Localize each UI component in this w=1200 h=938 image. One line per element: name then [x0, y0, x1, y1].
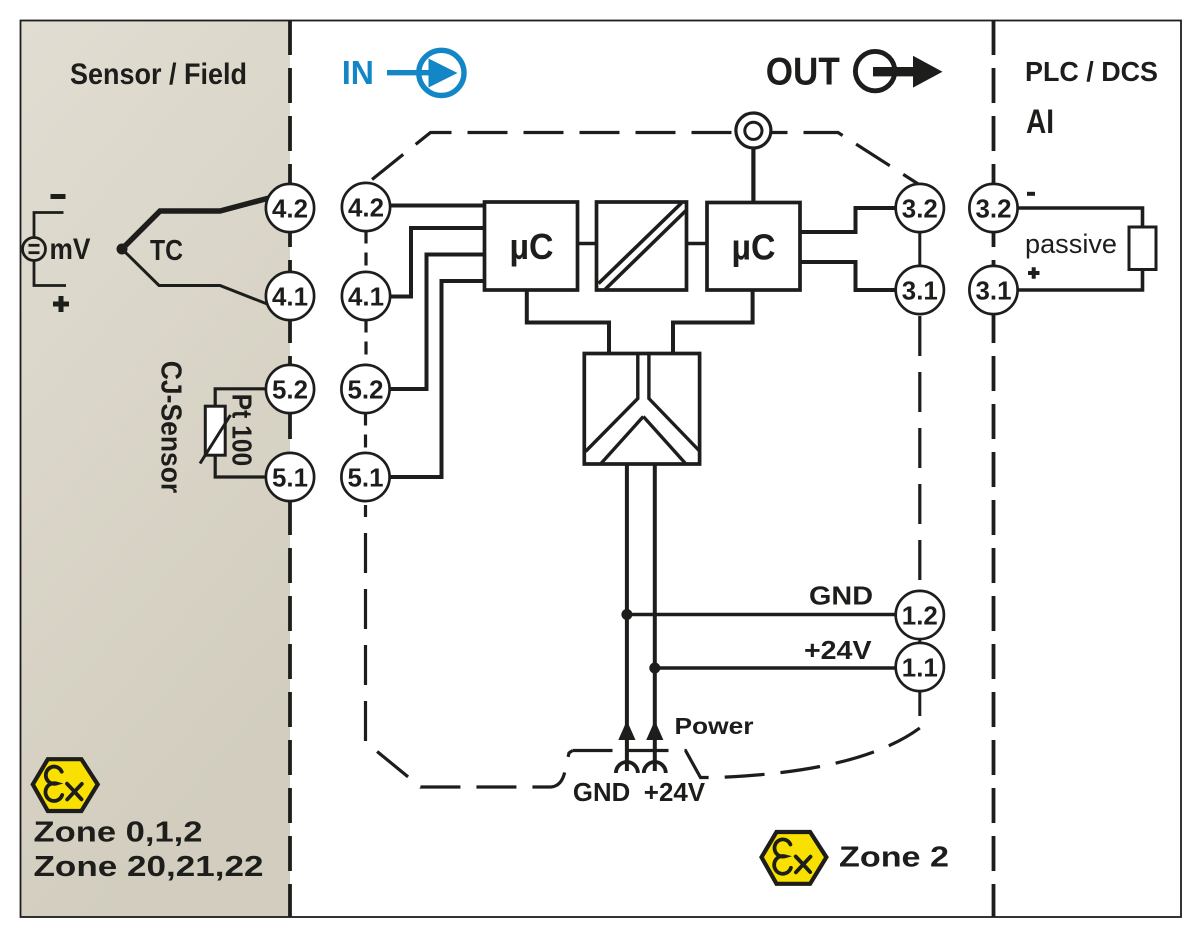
arrow up +24V wire [646, 721, 663, 741]
wire uC2 to power unit [673, 290, 753, 354]
svg-text:5.1: 5.1 [348, 463, 384, 493]
wire 4.2 inner to uC [389, 204, 485, 208]
svg-text:5.1: 5.1 [272, 463, 308, 493]
terminal 3.2 (device) [896, 184, 944, 232]
terminal 3.2 (PLC) [969, 184, 1017, 232]
svg-text:3.1: 3.1 [976, 276, 1012, 306]
microcontroller uC2 [707, 203, 800, 291]
zone separator left (dashed) [288, 20, 292, 917]
ground terminal (top circle) [736, 113, 771, 148]
terminal 5.1 (field) [266, 453, 314, 501]
arrow up GND wire [618, 721, 635, 741]
dashed enclosure right column [918, 316, 921, 592]
dashed enclosure left-bottom path [366, 505, 573, 787]
svg-text:4.2: 4.2 [272, 194, 308, 224]
zone separator right (dashed) [992, 20, 996, 917]
isolator block [597, 202, 687, 290]
dashed device enclosure top [366, 133, 920, 186]
svg-text:CJ-Sensor: CJ-Sensor [155, 361, 187, 493]
wire 4.1 inner to uC [389, 228, 485, 297]
svg-text:+24V: +24V [644, 777, 706, 807]
microcontroller uC1 [485, 202, 578, 290]
wire isolator to uC2 [687, 242, 708, 245]
dashed enclosure left column stubs [364, 231, 367, 274]
svg-text:OUT: OUT [766, 51, 840, 94]
power wire GND vertical [625, 464, 629, 771]
svg-text:µC: µC [732, 227, 776, 268]
svg-text:passive: passive [1025, 229, 1117, 259]
power wire +24V vertical [653, 464, 657, 771]
svg-text:µC: µC [510, 226, 554, 267]
plus label output [1028, 267, 1040, 278]
svg-text:Zone 20,21,22: Zone 20,21,22 [34, 851, 264, 883]
wire 5.2 inner to uC [388, 255, 485, 390]
svg-text:5.2: 5.2 [272, 375, 308, 405]
solid link inner 3.2-3.1 [918, 210, 921, 290]
svg-text:GND: GND [809, 581, 873, 611]
terminal 5.1 (device) [341, 453, 389, 501]
junction +24V [649, 663, 660, 674]
terminal 1.2 (device) [896, 591, 944, 639]
terminal 5.2 (field) [266, 365, 314, 413]
svg-text:1.1: 1.1 [902, 653, 938, 683]
solid stub below 1.1 [918, 690, 921, 716]
svg-text:+24V: +24V [804, 635, 872, 665]
wire 5.1 inner to uC [388, 281, 485, 477]
svg-text:5.2: 5.2 [348, 375, 384, 405]
mV source [23, 213, 67, 286]
svg-text:3.2: 3.2 [902, 194, 938, 224]
wire uC1 to power unit [527, 290, 609, 354]
terminal 5.2 (device) [341, 365, 389, 413]
resistor load passive [1017, 208, 1143, 227]
wire ground terminal to uC2 [751, 149, 755, 203]
svg-text:Sensor / Field: Sensor / Field [70, 58, 247, 91]
svg-text:1.2: 1.2 [902, 601, 938, 631]
wire uC2 to 3.1 [800, 262, 897, 290]
terminal 4.2 (device) [342, 183, 390, 231]
solid link 1.2-1.1 [918, 634, 921, 648]
thermocouple TC [117, 244, 128, 255]
OUT symbol [855, 51, 942, 90]
zone Sensor/Field background [21, 21, 291, 917]
Pt100 resistor [215, 389, 267, 406]
terminal 4.1 (device) [342, 272, 390, 320]
svg-text:4.2: 4.2 [348, 193, 384, 223]
svg-text:Zone 0,1,2: Zone 0,1,2 [34, 817, 203, 849]
wire +24V to 1.1 [655, 666, 897, 670]
svg-text:TC: TC [150, 235, 183, 267]
svg-text:3.2: 3.2 [976, 194, 1012, 224]
svg-text:Power: Power [675, 713, 754, 739]
terminal 3.1 (PLC) [969, 266, 1017, 314]
svg-text:4.1: 4.1 [348, 282, 384, 312]
junction GND [621, 609, 632, 620]
wire GND to 1.2 [627, 613, 897, 617]
power supply block [584, 354, 699, 465]
plus label [53, 296, 69, 312]
svg-text:mV: mV [50, 233, 91, 266]
svg-text:Pt 100: Pt 100 [227, 394, 258, 467]
IN symbol [387, 50, 464, 95]
terminal 1.1 (device) [896, 643, 944, 691]
plug socket GND [616, 762, 638, 773]
wire uC1 to isolator [578, 242, 597, 245]
svg-text:Zone 2: Zone 2 [839, 842, 949, 874]
svg-text:PLC / DCS: PLC / DCS [1025, 56, 1158, 87]
svg-text:4.1: 4.1 [272, 282, 308, 312]
svg-text:3.1: 3.1 [902, 276, 938, 306]
Ex symbol zone2 [762, 832, 827, 884]
terminal 4.2 (field) [266, 184, 314, 232]
minus label output [1027, 192, 1035, 196]
plug socket +24V [644, 762, 666, 773]
wire uC2 to 3.2 [800, 208, 897, 232]
svg-text:GND: GND [573, 777, 630, 807]
terminal 4.1 (field) [266, 272, 314, 320]
minus label [51, 194, 66, 199]
svg-text:IN: IN [342, 54, 374, 91]
terminal 3.1 (device) [896, 266, 944, 314]
svg-text:AI: AI [1026, 103, 1054, 141]
